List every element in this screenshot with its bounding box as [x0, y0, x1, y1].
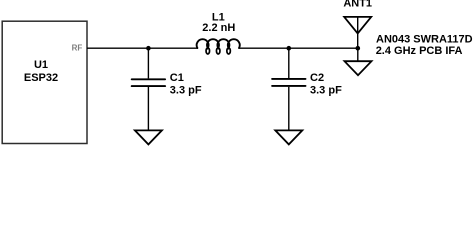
svg-text:2.2 nH: 2.2 nH	[202, 22, 235, 34]
wire antenna stem	[357, 17, 359, 48]
svg-text:U1: U1	[34, 59, 48, 71]
svg-text:3.3 pF: 3.3 pF	[170, 85, 202, 97]
svg-text:C2: C2	[310, 72, 324, 84]
wire RF to L1 (through node of C1)	[87, 47, 198, 49]
ground (below C1)	[135, 130, 162, 144]
node: junction dot at antenna feed	[356, 46, 361, 51]
inductor L1	[197, 39, 240, 48]
capacitor C2	[288, 48, 290, 78]
wire L1 to antenna node (through node of C2)	[239, 47, 358, 49]
svg-text:ANT1: ANT1	[343, 0, 372, 10]
svg-text:RF: RF	[72, 44, 83, 53]
ground (below antenna feed)	[345, 61, 372, 75]
capacitor C1	[147, 48, 149, 78]
antenna ANT1 symbol	[344, 17, 371, 34]
svg-text:ESP32: ESP32	[24, 72, 58, 84]
svg-text:C1: C1	[170, 72, 184, 84]
ground (below C2)	[275, 130, 302, 144]
svg-text:2.4 GHz PCB IFA: 2.4 GHz PCB IFA	[376, 45, 463, 57]
node: junction dot at C2 tap	[287, 46, 292, 51]
svg-text:3.3 pF: 3.3 pF	[310, 85, 342, 97]
op-chip U1 (ESP32) body	[2, 21, 87, 143]
svg-text:AN043 SWRA117D: AN043 SWRA117D	[376, 33, 473, 45]
node: junction dot at C1 tap	[146, 46, 151, 51]
wire feed to ground	[357, 48, 359, 61]
